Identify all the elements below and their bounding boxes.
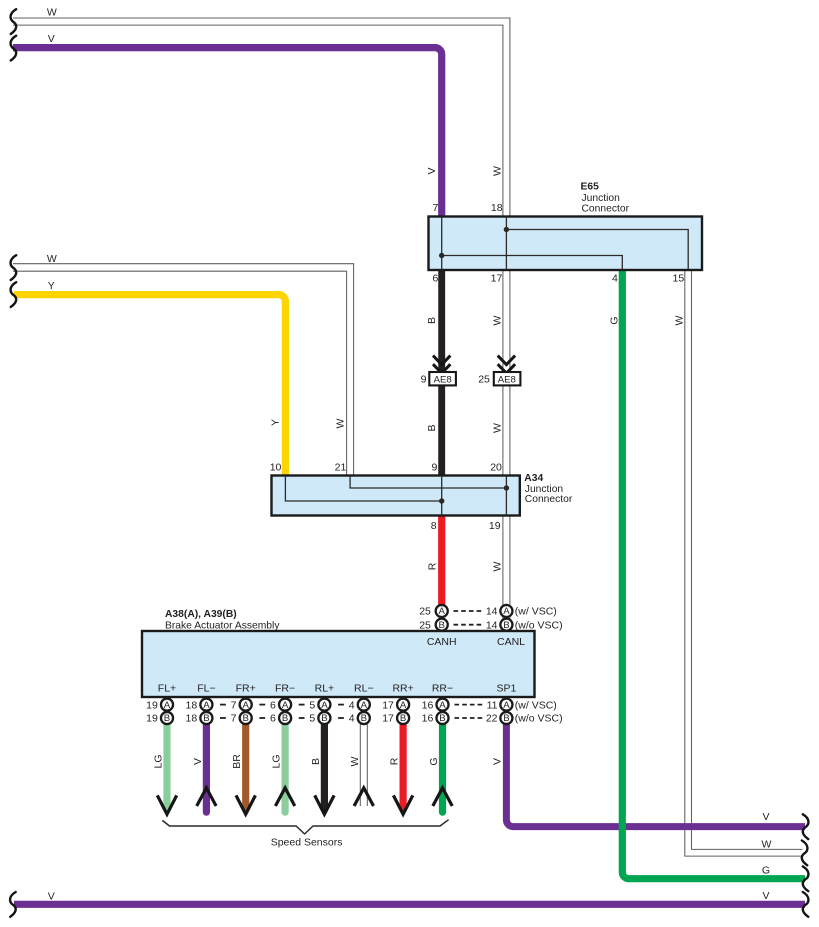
- svg-text:10: 10: [270, 462, 282, 474]
- svg-text:14: 14: [486, 606, 498, 618]
- svg-text:17: 17: [382, 713, 394, 725]
- svg-text:FR−: FR−: [275, 683, 295, 695]
- svg-text:B: B: [503, 713, 509, 724]
- svg-text:4: 4: [349, 699, 355, 711]
- svg-text:A: A: [321, 700, 328, 711]
- svg-text:A: A: [203, 700, 210, 711]
- svg-text:W: W: [47, 253, 57, 265]
- svg-text:19: 19: [146, 713, 158, 725]
- svg-text:B: B: [282, 713, 288, 724]
- svg-text:B: B: [426, 317, 438, 324]
- svg-text:W: W: [47, 6, 57, 18]
- svg-text:V: V: [48, 890, 55, 902]
- svg-text:25: 25: [478, 374, 490, 386]
- svg-text:A: A: [503, 700, 510, 711]
- svg-text:W: W: [335, 418, 347, 428]
- svg-text:18: 18: [491, 202, 503, 214]
- svg-text:4: 4: [612, 273, 618, 285]
- svg-text:FL+: FL+: [158, 683, 176, 695]
- svg-text:14: 14: [486, 619, 498, 631]
- svg-text:LG: LG: [152, 754, 164, 768]
- svg-text:B: B: [503, 620, 509, 631]
- svg-text:A: A: [438, 606, 445, 617]
- svg-text:B: B: [426, 424, 438, 431]
- svg-text:CANH: CANH: [427, 636, 457, 648]
- svg-text:16: 16: [422, 699, 434, 711]
- svg-text:9: 9: [421, 374, 427, 386]
- svg-text:(w/o VSC): (w/o VSC): [515, 713, 563, 725]
- svg-text:B: B: [164, 713, 170, 724]
- svg-text:FL−: FL−: [197, 683, 215, 695]
- svg-text:A: A: [439, 700, 446, 711]
- svg-text:15: 15: [673, 273, 685, 285]
- svg-text:RL+: RL+: [315, 683, 335, 695]
- svg-text:25: 25: [419, 619, 431, 631]
- svg-text:V: V: [48, 33, 55, 45]
- svg-text:B: B: [400, 713, 406, 724]
- svg-text:G: G: [609, 316, 621, 324]
- svg-text:6: 6: [432, 273, 438, 285]
- svg-text:11: 11: [487, 699, 498, 711]
- svg-text:Speed Sensors: Speed Sensors: [271, 837, 343, 849]
- svg-text:A38(A), A39(B): A38(A), A39(B): [165, 609, 237, 620]
- svg-text:B: B: [439, 713, 445, 724]
- svg-text:B: B: [310, 758, 322, 765]
- svg-text:18: 18: [186, 699, 198, 711]
- svg-text:W: W: [762, 838, 772, 850]
- svg-text:16: 16: [422, 713, 434, 725]
- svg-text:B: B: [361, 713, 367, 724]
- svg-text:W: W: [491, 166, 503, 176]
- svg-text:B: B: [438, 620, 444, 631]
- svg-text:21: 21: [335, 462, 347, 474]
- svg-text:W: W: [491, 561, 503, 571]
- svg-text:RR+: RR+: [392, 683, 413, 695]
- svg-text:SP1: SP1: [496, 683, 516, 695]
- svg-text:18: 18: [186, 713, 198, 725]
- svg-text:Connector: Connector: [582, 204, 630, 215]
- svg-text:G: G: [762, 865, 770, 877]
- svg-text:Brake Actuator Assembly: Brake Actuator Assembly: [165, 621, 280, 632]
- svg-text:19: 19: [146, 699, 158, 711]
- svg-text:A: A: [400, 700, 407, 711]
- svg-text:AE8: AE8: [434, 374, 452, 385]
- svg-text:9: 9: [432, 462, 438, 474]
- svg-text:6: 6: [270, 699, 276, 711]
- svg-text:B: B: [203, 713, 209, 724]
- svg-text:V: V: [762, 811, 769, 823]
- svg-text:A34: A34: [524, 473, 543, 484]
- svg-text:17: 17: [382, 699, 394, 711]
- svg-text:V: V: [762, 890, 769, 902]
- svg-text:B: B: [242, 713, 248, 724]
- svg-text:Connector: Connector: [525, 494, 573, 505]
- svg-text:W: W: [491, 423, 503, 433]
- svg-text:V: V: [426, 167, 438, 174]
- svg-text:(w/ VSC): (w/ VSC): [515, 699, 557, 711]
- svg-text:W: W: [491, 315, 503, 325]
- svg-text:B: B: [321, 713, 327, 724]
- svg-text:5: 5: [309, 713, 315, 725]
- svg-text:19: 19: [489, 520, 501, 532]
- svg-text:RR−: RR−: [432, 683, 453, 695]
- svg-text:Y: Y: [48, 280, 55, 292]
- svg-text:W: W: [349, 756, 361, 766]
- svg-text:6: 6: [270, 713, 276, 725]
- svg-text:R: R: [389, 757, 401, 765]
- svg-text:8: 8: [431, 520, 437, 532]
- svg-text:G: G: [428, 757, 440, 765]
- svg-text:A: A: [361, 700, 368, 711]
- svg-text:FR+: FR+: [236, 683, 256, 695]
- svg-text:A: A: [503, 606, 510, 617]
- svg-text:W: W: [674, 315, 686, 325]
- svg-text:E65: E65: [581, 182, 600, 193]
- svg-text:A: A: [164, 700, 171, 711]
- svg-text:7: 7: [231, 699, 237, 711]
- svg-text:7: 7: [231, 713, 237, 725]
- svg-text:(w/o VSC): (w/o VSC): [515, 619, 563, 631]
- svg-text:Junction: Junction: [582, 193, 621, 204]
- svg-text:V: V: [192, 758, 204, 765]
- svg-text:R: R: [427, 562, 439, 570]
- svg-text:A: A: [282, 700, 289, 711]
- svg-text:V: V: [492, 758, 504, 765]
- svg-text:RL−: RL−: [354, 683, 374, 695]
- svg-text:22: 22: [486, 713, 498, 725]
- svg-text:17: 17: [491, 273, 503, 285]
- svg-text:7: 7: [432, 202, 438, 214]
- svg-text:A: A: [242, 700, 249, 711]
- svg-text:AE8: AE8: [498, 374, 516, 385]
- svg-text:20: 20: [490, 462, 502, 474]
- svg-text:LG: LG: [271, 754, 283, 768]
- svg-text:4: 4: [349, 713, 355, 725]
- svg-text:BR: BR: [231, 754, 243, 769]
- svg-text:5: 5: [309, 699, 315, 711]
- svg-text:Y: Y: [270, 419, 282, 426]
- svg-text:(w/ VSC): (w/ VSC): [515, 606, 557, 618]
- svg-text:25: 25: [419, 606, 431, 618]
- svg-text:CANL: CANL: [497, 636, 525, 648]
